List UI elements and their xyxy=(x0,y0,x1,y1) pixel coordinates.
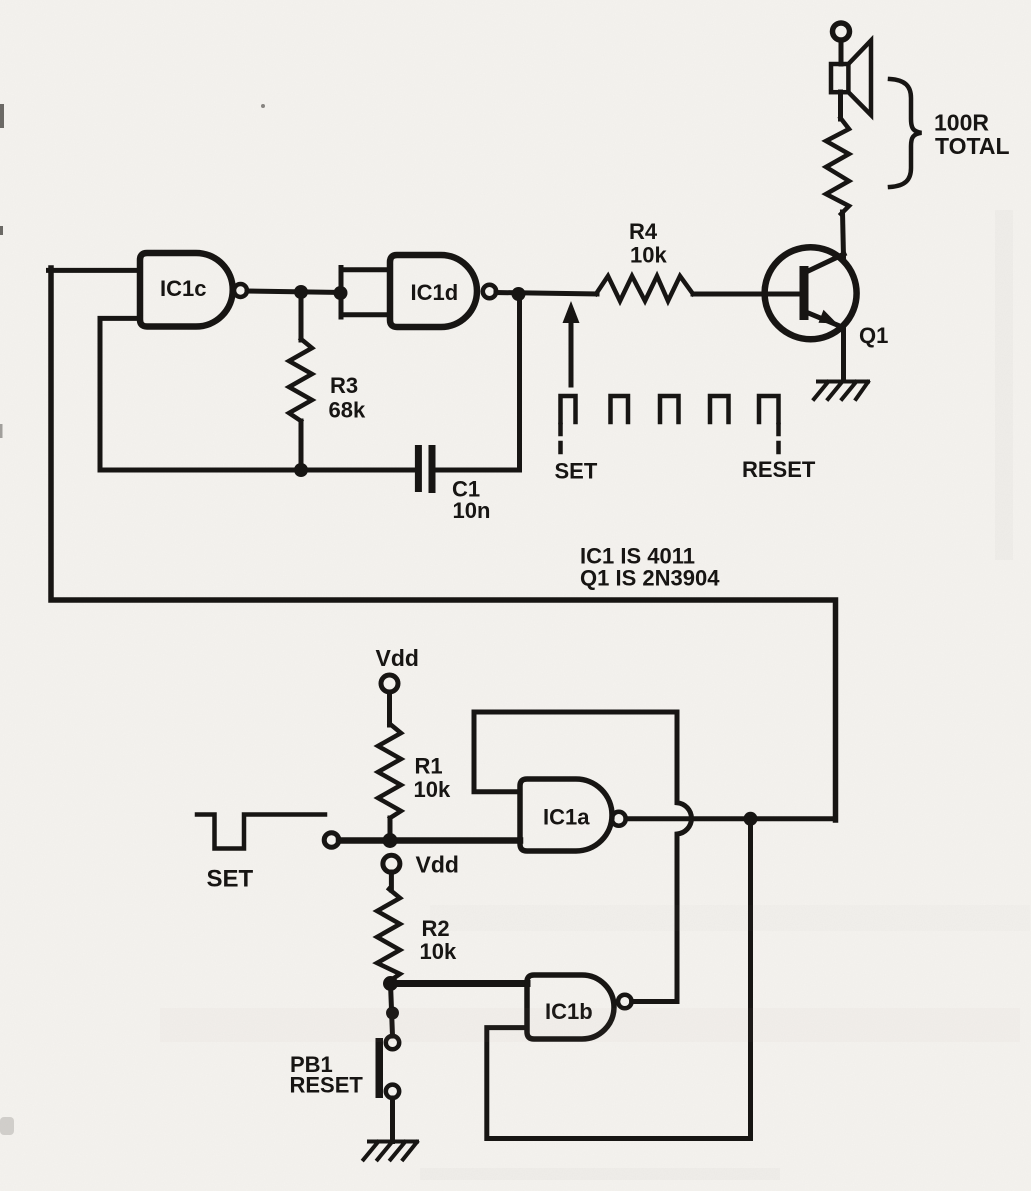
wire R3 bottom xyxy=(299,421,304,470)
capacitor C1 xyxy=(415,445,436,493)
bubble IC1d output xyxy=(483,285,496,298)
transistor Q1 xyxy=(765,247,857,339)
wire feedback loop (IC1c input to IC1a output) xyxy=(51,268,836,820)
wire speaker terminal to speaker xyxy=(839,40,844,64)
svg-text:10k: 10k xyxy=(630,243,667,268)
wire IC1b output xyxy=(632,999,677,1004)
wire IC1c bottom input xyxy=(100,318,140,470)
wire junction down to switch xyxy=(391,984,393,1037)
wire C1 right plate to vertical xyxy=(436,468,520,473)
svg-text:Vdd: Vdd xyxy=(416,852,459,878)
wire Vdd to R2 xyxy=(389,872,394,890)
svg-text:R1: R1 xyxy=(415,754,443,779)
wire junction down to bottom rail xyxy=(748,819,753,1139)
bubble IC1a output xyxy=(612,812,626,826)
wire R4 to Q1 base xyxy=(693,292,804,297)
wire SET terminal to IC1a input xyxy=(339,837,520,844)
wire speaker to resistor xyxy=(838,92,843,119)
speaker LS1 terminal xyxy=(833,23,850,40)
svg-text:Q1: Q1 xyxy=(859,323,888,348)
resistor R3 xyxy=(289,339,312,421)
node R3 top junction xyxy=(294,285,308,299)
wire IC1d output down to C1 xyxy=(517,294,522,470)
pulse waveform pulse 4 xyxy=(710,396,729,422)
switch PB1 contact top xyxy=(386,1036,399,1049)
arrow SET (points at R4 node) xyxy=(563,301,580,385)
node IC1d input junction xyxy=(334,286,348,300)
ground (PB1) xyxy=(364,1142,418,1160)
node IC1a output junction xyxy=(744,812,758,826)
wire R1 bottom xyxy=(388,818,393,841)
brace 100R total xyxy=(890,79,922,187)
gate IC1b xyxy=(527,975,614,1039)
pulse waveform pulse 5 xyxy=(759,396,779,422)
node switch junction xyxy=(386,1007,399,1020)
wire IC1d input bracket xyxy=(341,268,390,318)
wire IC1a output xyxy=(626,816,836,821)
terminal Vdd (R2) xyxy=(383,855,400,872)
switch PB1 bar xyxy=(376,1038,384,1098)
wire R3 top xyxy=(299,292,304,340)
dashed line SET xyxy=(558,425,563,460)
pulse waveform pulse 2 xyxy=(611,396,629,422)
ground (Q1 emitter) xyxy=(814,382,868,400)
wire Vdd to R1 xyxy=(387,692,392,725)
pulse waveform pulse 3 xyxy=(660,396,679,422)
svg-text:IC1a: IC1a xyxy=(543,805,590,830)
svg-text:SET: SET xyxy=(555,459,598,484)
decorative scan bands xyxy=(160,210,1030,1180)
svg-text:RESET: RESET xyxy=(742,457,816,482)
edge artifact marks xyxy=(0,104,265,1135)
gate IC1d xyxy=(390,255,477,327)
waveform SET input xyxy=(197,815,325,849)
wire IC1c output to node xyxy=(247,291,341,293)
wire resistor to Q1 collector xyxy=(843,212,844,257)
gate IC1a xyxy=(520,779,612,851)
node IC1d output junction xyxy=(512,287,526,301)
wire IC1c top input xyxy=(49,268,141,273)
svg-text:IC1d: IC1d xyxy=(411,280,459,305)
node R1 bottom junction xyxy=(383,833,398,848)
wire IC1a top input loop xyxy=(474,712,677,792)
svg-text:10k: 10k xyxy=(420,939,457,964)
svg-text:R4: R4 xyxy=(629,219,658,244)
wire feedback IC1b output up (with hop) xyxy=(677,712,691,1002)
bubble IC1c output xyxy=(234,284,247,297)
wire IC1d output xyxy=(496,293,597,295)
terminal Vdd (R1) xyxy=(381,675,398,692)
wire R2 junction to IC1b input xyxy=(391,980,528,987)
pulse waveform pulse 1 xyxy=(561,396,576,422)
svg-text:10k: 10k xyxy=(414,777,451,802)
svg-text:SET: SET xyxy=(207,866,254,893)
switch PB1 contact bottom xyxy=(386,1085,399,1098)
bubble IC1b output xyxy=(618,995,632,1009)
resistor 100R (speaker series) xyxy=(826,118,849,214)
resistor R4 xyxy=(596,276,693,301)
wire bottom rail to C1 left plate xyxy=(100,468,415,473)
svg-text:R3: R3 xyxy=(330,373,358,398)
terminal SET input xyxy=(324,833,339,848)
svg-text:RESET: RESET xyxy=(290,1073,364,1098)
node R3 bottom junction xyxy=(294,463,308,477)
resistor R1 xyxy=(378,724,401,818)
wire Q1 emitter to ground xyxy=(841,326,846,381)
svg-text:10n: 10n xyxy=(453,498,491,523)
svg-text:100R: 100R xyxy=(934,110,989,136)
node R2 bottom junction xyxy=(383,976,398,991)
speaker LS1 xyxy=(831,41,871,116)
dashed line RESET xyxy=(776,425,781,460)
gate IC1c xyxy=(140,253,233,327)
svg-text:IC1c: IC1c xyxy=(160,276,206,301)
svg-text:Vdd: Vdd xyxy=(376,645,419,671)
svg-text:Q1 IS 2N3904: Q1 IS 2N3904 xyxy=(580,566,720,591)
wire IC1b bottom input loop xyxy=(487,1028,751,1139)
svg-text:68k: 68k xyxy=(329,398,366,423)
svg-text:TOTAL: TOTAL xyxy=(935,133,1010,159)
resistor R2 xyxy=(377,889,400,981)
wire switch to ground xyxy=(390,1098,395,1142)
